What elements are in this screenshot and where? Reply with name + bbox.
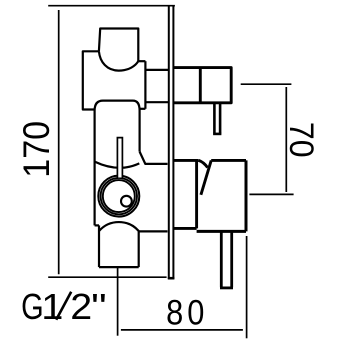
svg-text:80: 80	[166, 292, 208, 331]
svg-text:": "	[91, 286, 107, 327]
svg-text:70: 70	[282, 122, 320, 158]
svg-text:170: 170	[16, 121, 58, 178]
svg-text:G: G	[21, 286, 44, 327]
svg-text:1: 1	[41, 288, 63, 328]
svg-text:2: 2	[70, 287, 92, 327]
